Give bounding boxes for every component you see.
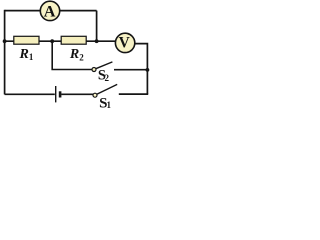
svg-text:S1: S1 <box>99 96 111 112</box>
node junction on right side at S2 row <box>146 68 150 72</box>
wire S2 right segment to right side <box>114 69 147 71</box>
wire left vertical side <box>4 10 6 95</box>
switch S2 <box>92 62 112 83</box>
node junction right on row 2 at ammeter drop <box>95 39 99 43</box>
svg-text:V: V <box>119 35 130 52</box>
ammeter U A <box>40 1 59 20</box>
svg-text:S2: S2 <box>98 67 110 83</box>
svg-text:R1: R1 <box>19 47 34 62</box>
wire bottom left from corner to battery <box>5 93 55 95</box>
resistor R1 <box>14 36 39 62</box>
wire S2 branch: down from row 2 junction then right to switch <box>52 41 92 69</box>
wire row 2 horizontal <box>5 40 116 42</box>
wire S1 right segment to bottom right corner <box>119 93 148 95</box>
battery cell <box>56 86 60 102</box>
node junction between R1 and R2 <box>50 39 54 43</box>
wire from battery to switch S1 <box>61 93 93 95</box>
switch S1 <box>93 84 117 111</box>
wire top from left corner to right drop <box>5 10 97 12</box>
voltmeter U V <box>115 33 134 52</box>
svg-text:R2: R2 <box>69 47 84 62</box>
node junction left on row 2 <box>3 39 7 43</box>
wire voltmeter right exit and right vertical side <box>135 44 148 95</box>
wire ammeter branch drop to row 2 <box>96 11 98 42</box>
svg-text:A: A <box>44 2 56 20</box>
resistor R2 <box>61 36 86 62</box>
